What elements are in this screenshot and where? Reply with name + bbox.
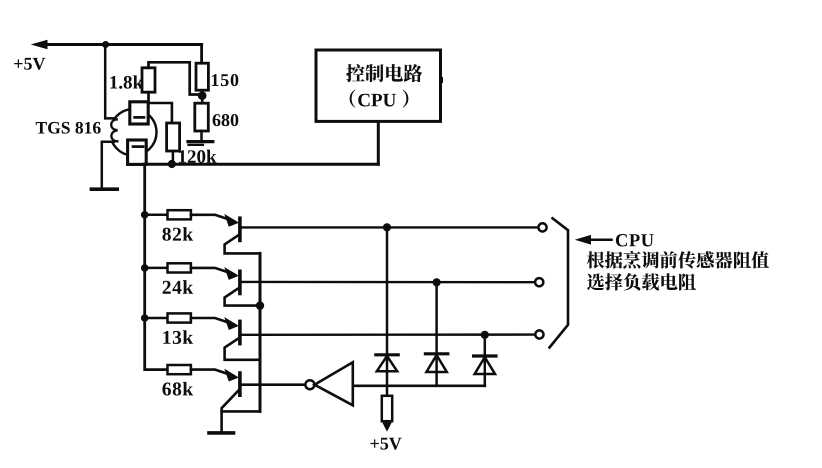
label 120k [179, 150, 217, 163]
transistor Q2 base bar [238, 271, 242, 293]
diode D1 [376, 227, 398, 385]
wire bus to R82k [145, 214, 168, 217]
switch contact 2 [535, 278, 543, 286]
label CPU note [616, 234, 654, 246]
inverter bubble [305, 380, 314, 389]
wire Q4 ground stem [220, 411, 223, 431]
sensor bottom electrode [128, 140, 147, 164]
sensor top electrode [130, 102, 148, 124]
wire emitter Q4 [222, 389, 260, 411]
wire R20k bottom lead [172, 151, 175, 164]
node bus tap 82k [141, 211, 149, 219]
wire collector Q2 to switch 2 [240, 281, 534, 284]
node bus tap 13k [141, 314, 149, 322]
wire heater top lead [105, 45, 114, 119]
label control circuit [346, 64, 422, 82]
wire R68k to base Q4 [191, 370, 234, 376]
wire riser to CPU box [377, 121, 380, 164]
label TGS 816 [36, 122, 101, 134]
ground Q4 emitter [209, 431, 234, 435]
wire top electrode to R20k [148, 103, 172, 123]
node rail Q2 emitter junction [256, 301, 264, 309]
node tap D2 [433, 278, 441, 286]
wire heater bottom to ground [102, 142, 114, 188]
switch contact 1 [538, 223, 546, 231]
transistor Q3 base bar [238, 321, 242, 343]
wire emitter Q1 [225, 234, 260, 253]
label 1.8k [110, 75, 143, 88]
resistor R 680 [195, 103, 209, 131]
wire node to R680 [201, 96, 204, 104]
wire collector Q3 to switch 3 [240, 333, 534, 336]
node R150/R680 junction [198, 91, 207, 100]
gas sensor TGS816 envelope [110, 109, 156, 155]
resistor pull-up [382, 396, 392, 421]
arrow from CPU note [577, 236, 591, 244]
wire R82k to base Q1 [191, 215, 234, 221]
switch contact 3 [535, 330, 543, 338]
wire emitter Q3 [225, 337, 260, 359]
resistor R 150 [196, 63, 208, 90]
label 13k [163, 330, 193, 344]
wire R680 to ground [200, 131, 203, 141]
wire collector Q1 to switch 1 [240, 226, 537, 228]
wire 1.8k top jog to R150/R680 node [149, 62, 199, 94]
wire inverter output line [353, 384, 485, 387]
resistor R 24k [168, 263, 191, 272]
wire rail corner down to R150 [200, 45, 203, 64]
label +5V supply [14, 58, 45, 70]
label 82k [162, 227, 193, 241]
inverter gate [315, 362, 353, 405]
resistor R 13k [168, 313, 191, 322]
label (CPU) text [358, 94, 396, 107]
label +5V bottom [370, 438, 401, 450]
control circuit (CPU) box [439, 77, 443, 83]
wire to pull-up resistor [386, 386, 389, 396]
ground below R680 [188, 142, 213, 145]
wire emitter rail [259, 253, 262, 411]
node bus tap 24k [141, 264, 149, 272]
wire bus to R13k [145, 317, 168, 320]
resistor R 1.8k [142, 68, 155, 92]
resistor R 82k [168, 210, 191, 219]
resistor R 20k [167, 123, 180, 151]
transistor Q1 base bar [238, 218, 242, 240]
ground sensor heater [91, 187, 117, 191]
label (CPU) open paren [350, 90, 356, 108]
wire main sensor output line [144, 163, 378, 166]
resistor R 68k [168, 365, 191, 374]
note line2 [587, 273, 696, 290]
wire top rail [44, 43, 202, 46]
node tap D3 [481, 331, 489, 339]
diode D3 [474, 335, 496, 386]
base arrow Q1 [225, 215, 238, 226]
node R20k output junction [168, 160, 176, 168]
wire resistor to +5V arrow [386, 421, 389, 424]
wire bus to R24k [145, 267, 168, 270]
node top rail junction [102, 41, 109, 48]
bracket switch group [550, 218, 569, 347]
wire 1.8k bottom lead [147, 92, 150, 102]
label (CPU) close paren [403, 90, 409, 108]
wire R24k to base Q2 [191, 268, 234, 274]
wire emitter Q2 [225, 287, 260, 305]
diode D2 [425, 282, 447, 386]
+5V supply arrow [33, 40, 48, 48]
base arrow Q2 [225, 268, 238, 279]
label 680 [213, 114, 239, 126]
note line1 [587, 251, 769, 268]
base arrow Q4 [225, 370, 238, 381]
label 24k [163, 280, 193, 294]
node tap D1 [383, 223, 391, 231]
wire ladder bus [145, 164, 168, 369]
sensor heater arcs [104, 121, 118, 141]
wire R150 to node [201, 90, 204, 95]
base arrow Q3 [225, 318, 238, 329]
label 68k [162, 382, 193, 396]
wire collector Q4 to inverter bubble [240, 383, 306, 386]
wire R13k to base Q3 [191, 318, 234, 324]
transistor Q4 base bar [238, 373, 242, 395]
label 150 [212, 74, 238, 86]
